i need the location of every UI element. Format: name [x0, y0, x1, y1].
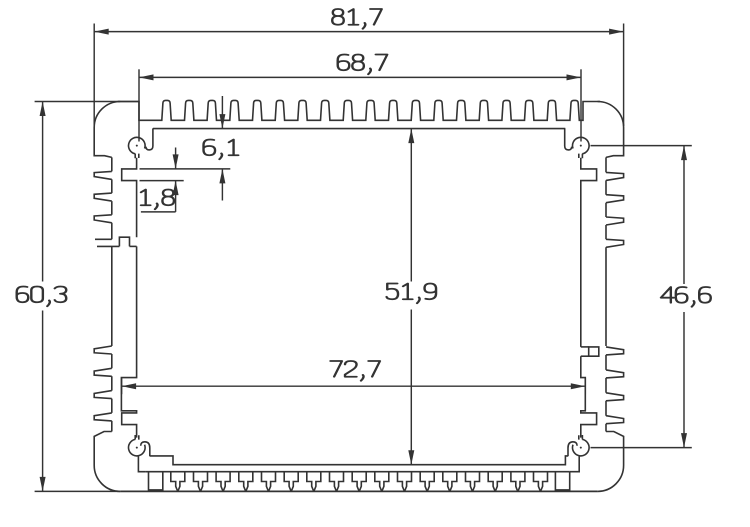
left wall outer surface — [111, 246, 113, 346]
dimension 1,8 line — [175, 148, 177, 169]
top-right corner arc and bulge — [598, 102, 624, 158]
dimension text 1,8 — [141, 190, 174, 210]
dimension 51,9 arrows — [408, 129, 414, 144]
right wall key tab shelf — [581, 346, 589, 348]
dimension 72,7 extension lines — [121, 378, 123, 394]
top-left corner arc and bulge — [94, 102, 120, 158]
screw boss bottom-left — [129, 435, 146, 456]
bottom wall right end notch — [555, 472, 569, 490]
dimension 46,6 line — [683, 146, 685, 284]
dimension text 72,7 — [330, 361, 380, 381]
bottom-right corner step — [570, 456, 580, 472]
dimension 81,7 line — [94, 31, 623, 33]
corner hook top-left — [146, 128, 153, 150]
dimension 72,7 arrows — [122, 383, 137, 389]
dimension text 60,3 — [17, 287, 67, 307]
left wall key tab — [119, 237, 129, 246]
corner hook bottom-right — [568, 442, 577, 456]
dimension 68,7 line — [139, 76, 581, 78]
screw boss bottom-right — [572, 435, 589, 456]
dimension 6,1 line — [221, 96, 223, 129]
dimension 68,7 arrows — [139, 74, 154, 80]
dimension 46,6 arrows — [681, 146, 687, 161]
dimension 60,3 arrows — [40, 102, 46, 117]
bottom wall channel ceiling line — [146, 471, 570, 473]
dimension 6,1 arrows — [219, 114, 225, 129]
bottom wall inner surface — [150, 456, 568, 465]
bottom wall outer edge — [120, 490, 597, 492]
corner hook bottom-left — [141, 442, 150, 456]
dimension 1,8 arrows — [173, 154, 179, 169]
dimension text 68,7 — [338, 55, 388, 75]
dimension 72,7 line — [122, 385, 586, 387]
screw boss top-left — [129, 137, 146, 158]
bottom wall left end notch — [149, 472, 163, 490]
dimension 60,3 line — [42, 102, 44, 282]
dimension text 51,9 — [387, 284, 437, 304]
bottom wall screw channel ports — [171, 472, 548, 491]
dimension 1,8 extension line — [140, 180, 184, 182]
bottom-left corner step — [138, 456, 146, 472]
dimension text 46,6 — [661, 287, 711, 307]
screw boss top-right — [572, 137, 589, 158]
dimension text 81,7 — [332, 9, 382, 29]
bottom-left bulge and corner arc — [94, 432, 120, 492]
corner hook top-right — [565, 128, 572, 150]
dimension 60,3 extension lines — [35, 101, 139, 103]
top wall inner surface — [153, 128, 565, 130]
dimension 81,7 arrows — [94, 29, 109, 35]
dimension 46,6 extension lines — [591, 145, 692, 147]
left wall upper shelf lines — [95, 238, 112, 240]
dimension 1,8 leader — [141, 211, 176, 213]
right wall key tab — [589, 347, 599, 356]
right wall upper fin cluster — [606, 157, 624, 346]
dimension 81,7 extension lines — [93, 24, 95, 127]
right wall lower fin cluster — [606, 347, 624, 432]
right wall inner surface with grooves and pocket — [581, 158, 597, 438]
dimension 68,7 extension lines — [138, 69, 140, 141]
dimension 6,1 extension line — [140, 168, 231, 170]
left wall lower fin cluster — [94, 346, 112, 432]
dimension 51,9 line — [410, 129, 412, 282]
left wall inner surface with grooves and pocket — [121, 158, 136, 438]
outer profile: top wall with heatsink fins — [118, 100, 600, 120]
dimension text 6,1 — [204, 140, 239, 160]
left wall upper fin cluster — [94, 157, 112, 239]
bottom-right bulge and corner arc — [598, 432, 624, 492]
